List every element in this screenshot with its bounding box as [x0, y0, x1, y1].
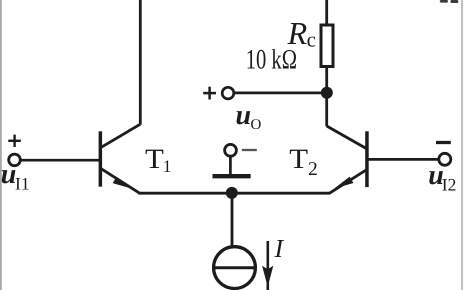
cropped text remnant top right	[440, 0, 459, 3]
svg-text:I: I	[274, 234, 285, 263]
output minus terminal	[225, 144, 237, 156]
label uI1	[1, 159, 30, 194]
ground bar	[213, 174, 251, 178]
input 2 terminal	[439, 153, 451, 165]
svg-text:u: u	[236, 100, 252, 131]
svg-text:O: O	[251, 117, 262, 133]
resistor Rc body	[321, 25, 333, 67]
label 10 kOhm	[246, 45, 297, 76]
resistor Rc top lead	[325, 0, 328, 25]
transistor T1 base bar	[99, 131, 103, 186]
ground stem	[229, 156, 232, 174]
input 1 plus sign	[8, 135, 20, 147]
wire: output to junction	[234, 92, 327, 95]
output minus sign	[242, 149, 257, 151]
label uO	[236, 100, 262, 133]
transistor T2 base bar	[365, 131, 369, 187]
label I	[274, 234, 285, 263]
wire: T2 base lead	[368, 158, 439, 161]
current direction arrowhead	[262, 266, 273, 287]
svg-text:T: T	[289, 144, 308, 175]
wire: T2 collector vertical	[325, 93, 328, 127]
label T1	[145, 144, 172, 176]
svg-text:I2: I2	[442, 175, 457, 195]
page left border	[0, 0, 2, 290]
label T2	[289, 144, 317, 180]
wire: T1 collector diagonal	[100, 124, 140, 148]
wire: T2 collector diagonal	[327, 126, 367, 149]
junction node: emitter rail	[226, 187, 238, 199]
label Rc	[287, 15, 316, 52]
wire: T1 emitter diagonal	[100, 168, 140, 193]
wire: emitter rail	[139, 192, 331, 195]
transistor T2 emitter arrow	[334, 177, 353, 189]
svg-text:c: c	[307, 27, 316, 51]
page right border	[461, 0, 463, 290]
resistor Rc bottom lead	[325, 67, 328, 94]
current direction arrow line	[266, 241, 269, 290]
transistor T1 emitter arrow	[113, 177, 132, 189]
svg-text:2: 2	[308, 159, 318, 180]
output plus sign	[203, 87, 216, 100]
current source I circle	[214, 247, 256, 289]
svg-text:I1: I1	[15, 174, 30, 194]
output plus terminal	[222, 87, 234, 99]
current source bar	[214, 266, 255, 269]
junction node: Rc / collector / output	[321, 87, 333, 99]
wire: T1 collector vertical	[139, 0, 142, 125]
wire: T2 emitter diagonal	[329, 170, 366, 193]
wire: T1 base lead	[21, 159, 100, 162]
input 2 minus sign	[436, 141, 451, 144]
svg-text:10 kΩ: 10 kΩ	[246, 45, 297, 76]
label uI2	[428, 160, 456, 195]
svg-text:T: T	[145, 144, 164, 175]
input 1 terminal	[9, 154, 21, 166]
wire: current source stem	[231, 193, 234, 249]
svg-text:1: 1	[163, 156, 172, 176]
